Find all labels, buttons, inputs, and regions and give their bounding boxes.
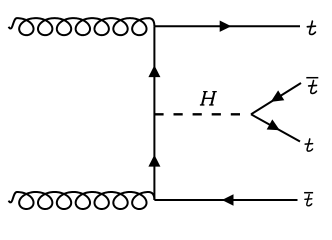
arrow on lower decay line (pointing away) [267,119,280,130]
arrow on lower vertical segment (up) [148,155,160,167]
outgoing anti-top line tbar (bottom) [154,199,297,201]
label t (top outgoing quark) [307,21,315,34]
label H (Higgs boson) [200,92,217,105]
outgoing top quark line t (top) [154,25,300,27]
arrow on bottom tbar line (left) [222,194,234,205]
label tbar (upper decay): t [309,81,317,94]
arrow on top t line (right) [220,21,232,32]
label t (lower decay) [305,139,312,151]
arrow on upper vertical segment (up) [148,65,160,77]
decay top line (lower, H to t) [251,114,300,141]
incoming gluon g1 (top) [9,18,155,35]
label tbar (bottom outgoing): t [305,195,312,206]
internal top-quark propagator (vertical line) [153,26,155,200]
arrow on upper decay line (pointing toward vertex) [271,90,285,102]
incoming gluon g2 (bottom) [9,192,155,209]
overline of upper tbar [306,77,318,79]
decay anti-top line (upper, H to tbar) [251,83,301,114]
Higgs propagator H (dashed line) [154,113,249,115]
overline of bottom tbar [304,192,313,194]
